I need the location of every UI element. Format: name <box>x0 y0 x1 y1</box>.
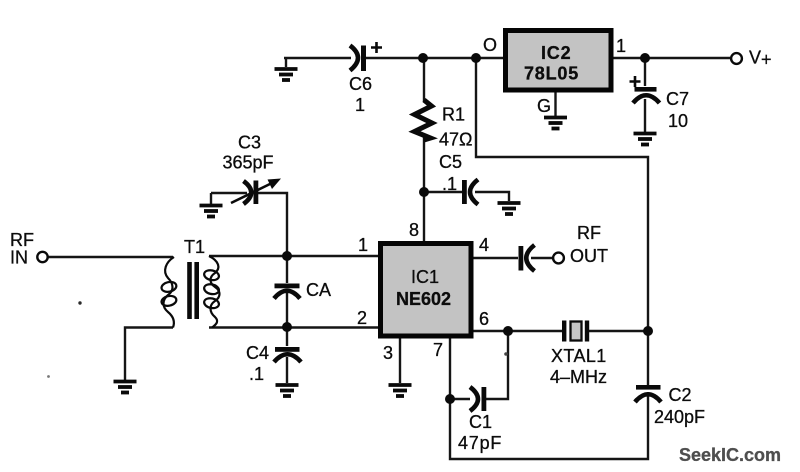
svg-text:C5: C5 <box>439 152 462 172</box>
svg-text:6: 6 <box>479 309 489 329</box>
svg-text:365pF: 365pF <box>223 153 274 173</box>
svg-text:C4: C4 <box>246 343 269 363</box>
svg-text:C2: C2 <box>669 385 692 405</box>
svg-text:.1: .1 <box>442 174 457 194</box>
svg-text:C7: C7 <box>666 89 689 109</box>
svg-text:+: + <box>761 50 772 70</box>
svg-text:XTAL1: XTAL1 <box>551 346 607 366</box>
svg-text:1: 1 <box>355 95 365 115</box>
svg-text:8: 8 <box>409 220 419 240</box>
svg-text:O: O <box>483 35 497 55</box>
svg-text:C3: C3 <box>238 133 261 153</box>
svg-text:240pF: 240pF <box>654 407 705 427</box>
svg-text:3: 3 <box>383 343 393 363</box>
svg-text:G: G <box>537 96 551 116</box>
svg-text:C1: C1 <box>469 412 492 432</box>
svg-text:4: 4 <box>479 235 489 255</box>
svg-text:IC1: IC1 <box>411 267 439 287</box>
svg-text:78L05: 78L05 <box>524 64 579 84</box>
svg-text:OUT: OUT <box>570 246 608 266</box>
svg-text:CA: CA <box>306 280 331 300</box>
svg-text:IN: IN <box>10 248 28 268</box>
svg-text:1: 1 <box>358 235 368 255</box>
svg-text:4–MHz: 4–MHz <box>550 367 607 387</box>
svg-text:10: 10 <box>668 111 688 131</box>
svg-text:47pF: 47pF <box>458 433 502 453</box>
svg-text:.1: .1 <box>249 364 264 384</box>
svg-text:NE602: NE602 <box>396 289 451 309</box>
svg-text:2: 2 <box>357 308 367 328</box>
svg-text:C6: C6 <box>349 74 372 94</box>
svg-text:1: 1 <box>616 36 626 56</box>
svg-text:SeekIC.com: SeekIC.com <box>679 445 781 465</box>
svg-text:47Ω: 47Ω <box>439 130 472 150</box>
svg-text:IC2: IC2 <box>541 43 571 63</box>
svg-text:T1: T1 <box>184 237 205 257</box>
svg-text:RF: RF <box>577 223 601 243</box>
svg-text:7: 7 <box>433 340 443 360</box>
svg-text:R1: R1 <box>442 105 465 125</box>
svg-text:V: V <box>749 48 761 68</box>
